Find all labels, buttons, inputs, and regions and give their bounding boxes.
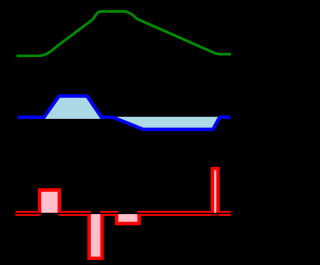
acceleration bar A3 fill (pink, shallow negative) <box>117 213 140 223</box>
velocity curve (blue, middle plot) <box>18 96 231 129</box>
zero-line thick red segments between bars <box>15 211 230 216</box>
black x-axis overdrawn on red zero line <box>14 212 232 214</box>
acceleration step curve (red, bottom plot) <box>15 169 230 259</box>
acceleration bar A1 fill (pink, positive) <box>40 190 60 213</box>
acceleration bar A4 fill (pink, spike positive) <box>212 169 218 214</box>
acceleration bar A2 fill (pink, deep negative) <box>89 213 102 258</box>
velocity positive fill (light blue trapezoid) <box>43 96 103 119</box>
red vertical stubs above axis at negative bar edges <box>40 211 140 215</box>
dim red axis segment visible under spike bar <box>211 214 220 216</box>
velocity negative fill (light blue band below zero) <box>112 117 220 130</box>
position curve (green, top plot) <box>17 11 232 56</box>
